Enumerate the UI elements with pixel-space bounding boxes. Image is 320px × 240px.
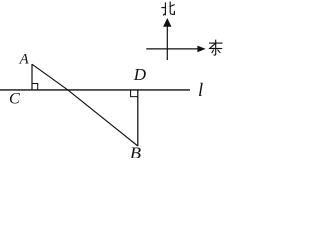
svg-text:C: C	[9, 90, 20, 108]
svg-text:D: D	[133, 65, 147, 84]
svg-text:l: l	[198, 81, 203, 101]
line l (horizontal road line)	[0, 89, 190, 91]
svg-text:A: A	[19, 51, 30, 67]
compass east arrowhead	[197, 46, 205, 53]
svg-text:B: B	[130, 143, 141, 158]
wire segment AC (vertical from A to line l)	[31, 64, 33, 90]
right angle mark at C	[32, 84, 38, 90]
right angle mark at D	[131, 90, 138, 97]
glyph 北 (north)	[162, 2, 175, 15]
wire segment DB (vertical from D to B)	[137, 90, 139, 146]
compass north arrowhead	[163, 18, 171, 27]
compass east shaft	[146, 48, 199, 50]
compass north shaft	[166, 26, 168, 61]
wire segment AB (diagonal from A through P on l to B)	[32, 64, 138, 146]
glyph 东 (east)	[209, 40, 222, 55]
